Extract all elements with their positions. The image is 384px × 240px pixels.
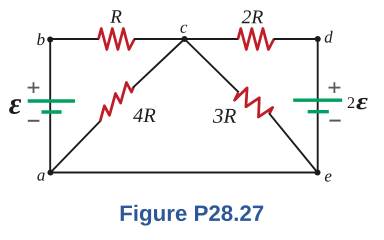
resistor 4R [100, 83, 133, 122]
battery E1 long plate (positive) [28, 99, 75, 102]
wire a to e (bottom horizontal) [51, 172, 318, 174]
wire R to c [134, 38, 185, 40]
label b [37, 33, 44, 45]
label 2R [242, 10, 263, 23]
label 4R [133, 109, 155, 123]
label R [110, 10, 121, 22]
label 2 emf E2 [348, 97, 368, 109]
wire b to R (top-left horizontal) [50, 38, 99, 40]
node b [47, 36, 53, 42]
caption Figure P28.27 [121, 205, 264, 226]
battery E2 long plate (positive) [293, 98, 342, 101]
node e [314, 169, 320, 175]
node a [47, 169, 53, 175]
label a [37, 173, 44, 181]
label c [181, 25, 188, 33]
wire a to 4R (diagonal) [51, 120, 101, 172]
plus sign of E1 [28, 82, 40, 93]
resistor 3R [235, 88, 273, 117]
wire d to e (right vertical) [317, 39, 319, 173]
minus sign of E1 [28, 120, 40, 122]
label 3R [213, 109, 236, 123]
label emf E1 [9, 99, 21, 114]
wire 2R to d [274, 38, 318, 40]
battery E2 short plate (negative) [308, 110, 329, 113]
label d [325, 31, 333, 43]
resistor R [99, 29, 135, 50]
node d [315, 36, 321, 42]
wire c to 3R (diagonal) [185, 39, 239, 92]
battery E1 short plate (negative) [42, 110, 62, 113]
wire b to a (left vertical) [49, 39, 51, 173]
node c [181, 36, 187, 42]
plus sign of E2 [329, 82, 341, 93]
wire 4R to c (diagonal) [133, 39, 185, 88]
resistor 2R [238, 29, 274, 50]
label e [325, 174, 332, 182]
wire 3R to e (diagonal) [269, 113, 318, 172]
wire c to 2R [185, 38, 239, 40]
minus sign of E2 [329, 120, 340, 122]
